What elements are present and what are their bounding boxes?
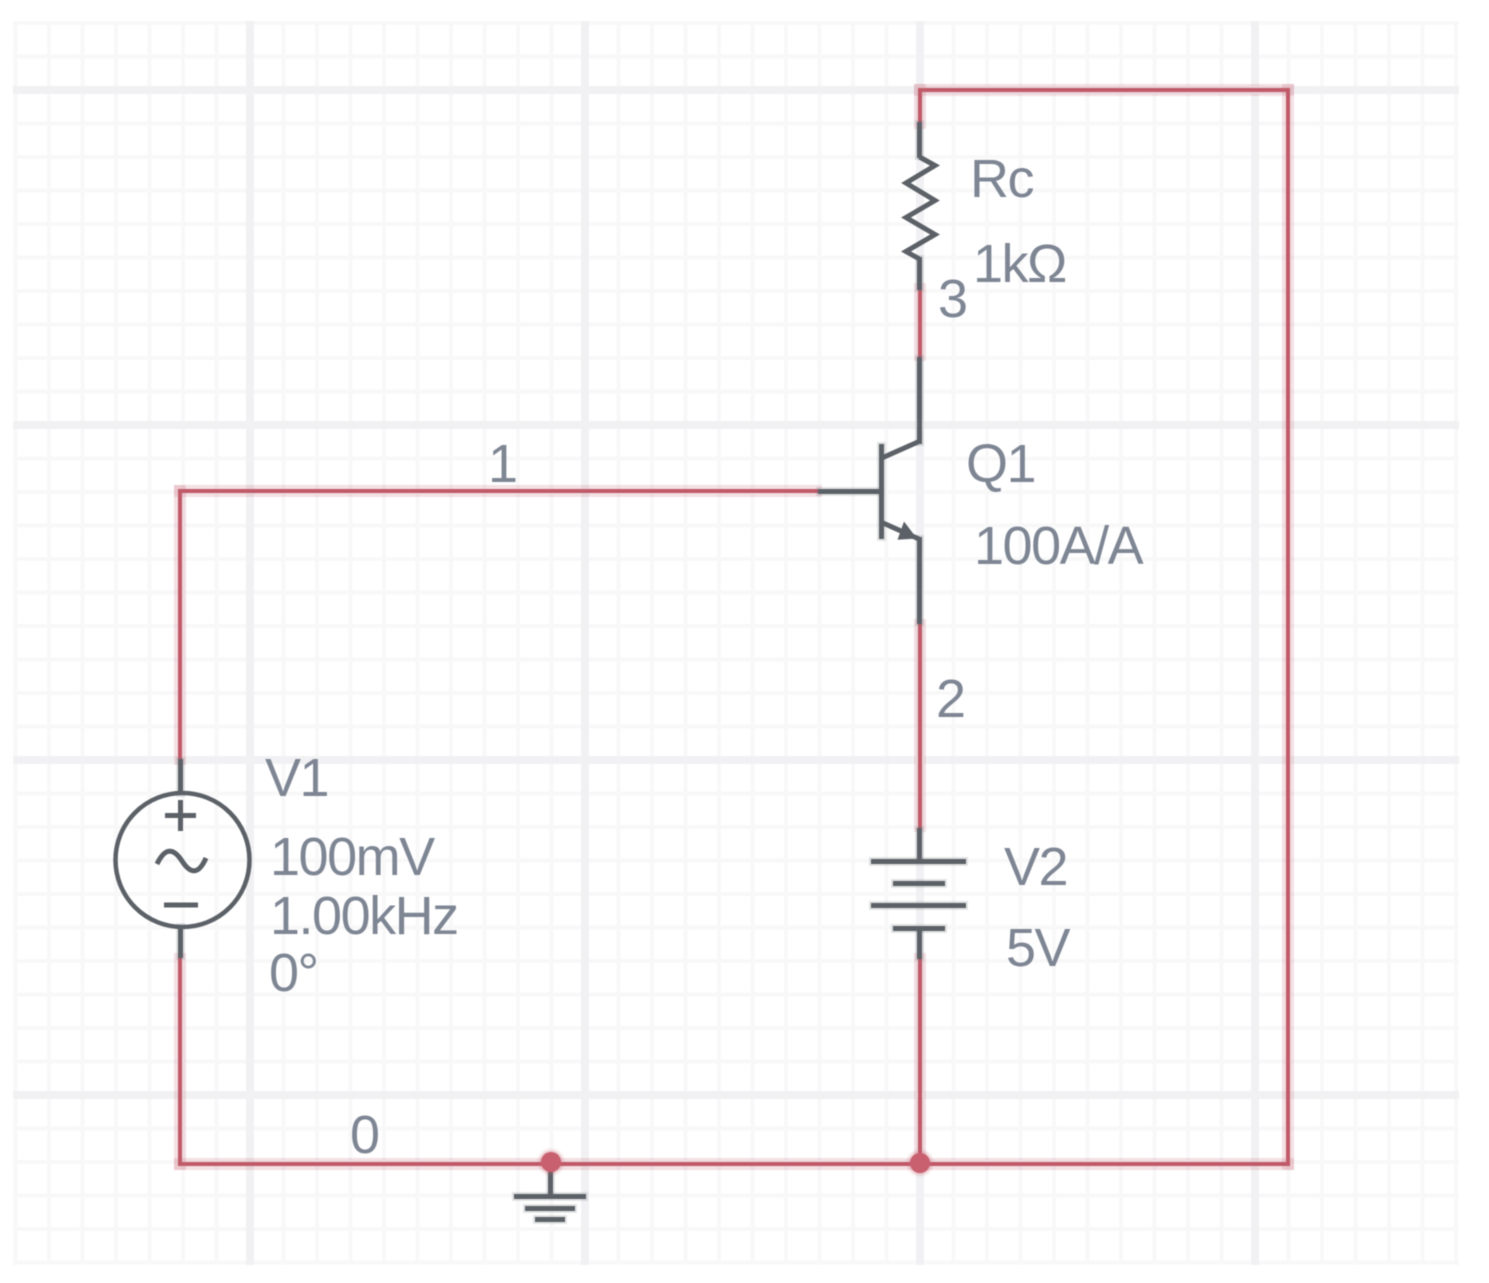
ground bar 3 [535,1217,565,1222]
node 2 [936,672,965,726]
transistor Q1 emitter diagonal [883,523,919,539]
battery V2 bottom stem [917,928,922,959]
V1 plus sign [165,800,196,831]
junction dot node 0 / V2 [910,1153,930,1173]
wire: left vertical lower (V1 minus to node 0) [178,957,182,1166]
label 5V [1006,921,1069,975]
node 3 [938,272,967,326]
battery V2 plate short 1 [893,881,945,886]
ground stem [548,1164,553,1196]
wire: V2 minus to node 0 [918,957,922,1166]
wire: resistor top stub red [918,88,922,125]
label 1.00kHz [270,889,458,943]
V1 top stub [178,759,183,795]
battery V2 plate long 2 [871,903,966,908]
resistor Rc top lead [917,122,922,158]
label Q1 [966,437,1035,491]
V1 source circle [116,793,250,927]
junction dot node 0 / ground [541,1152,561,1172]
wire: top horizontal (node VCC top) [918,88,1291,92]
transistor Q1 collector diagonal [883,442,919,458]
label Rc [970,152,1033,206]
node 1 [488,437,517,491]
wire: node 2 segment (Q1 emitter to V2) [918,623,922,828]
node 0 [350,1108,379,1162]
battery V2 top stem [917,828,922,862]
transistor Q1 emitter vertical [917,537,922,624]
resistor Rc bottom lead [917,257,922,290]
wire: bottom horizontal (node 0) [178,1162,1290,1166]
battery V2 plate long top [871,859,966,864]
wire: left vertical upper (node 1 down to V1 plus) [178,489,182,761]
wire: right vertical [1286,88,1290,1166]
battery V2 plate short 2 [893,926,945,931]
label V1 [265,751,328,805]
label V2 [1004,840,1067,894]
label 100A/A [974,519,1142,573]
resistor Rc zigzag [906,157,935,259]
wire: node 3 segment (Rc to Q1 collector) [918,287,922,357]
label 100mV [270,830,434,884]
V1 sine symbol [157,851,206,871]
transistor Q1 emitter arrow [898,522,918,540]
transistor Q1 base lead gray [818,489,881,494]
wire: base wire node 1 horizontal [178,489,818,493]
ground bar 2 [525,1206,575,1211]
V1 bottom stub [178,925,183,958]
ground bar 1 [514,1194,586,1199]
label 0 deg [269,946,318,1000]
transistor Q1 base bar [879,444,884,539]
label 1kOhm [973,237,1066,291]
V1 minus sign [164,903,198,908]
transistor Q1 collector vertical [917,357,922,444]
